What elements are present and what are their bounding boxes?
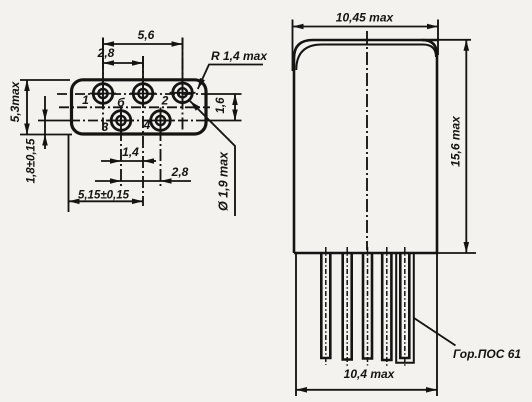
centerline bottom pin row: [70, 120, 207, 122]
lead pin 2 axis: [346, 247, 348, 366]
dimension 5,3 max (left, package height): [8, 80, 72, 135]
column centerline pin 6 (middle): [142, 56, 144, 206]
svg-text:Ø 1,9 max: Ø 1,9 max: [217, 151, 231, 211]
package outline (top view): [72, 80, 207, 134]
svg-text:4: 4: [143, 118, 151, 132]
lead pin 4 (side view): [382, 253, 391, 360]
dimension 2,8 (bottom pins pitch): [95, 165, 191, 184]
radius callout R1,4max: [195, 49, 268, 90]
lead pin 4 axis: [386, 247, 388, 367]
centerline bottom row left extension: [38, 120, 70, 122]
svg-text:10,4 max: 10,4 max: [344, 367, 396, 381]
package horizontal axis: [59, 106, 210, 108]
body outline (side view): [294, 40, 438, 253]
dimension 10,4 max: [296, 253, 437, 396]
svg-text:2: 2: [161, 94, 169, 108]
svg-text:2,8: 2,8: [97, 46, 115, 60]
svg-text:15,6 max: 15,6 max: [449, 115, 463, 167]
body vertical axis: [366, 31, 368, 250]
lead pin 1 axis: [325, 247, 327, 365]
pin 4 (bottom-right): [148, 108, 174, 134]
lead pin 1 (side view): [321, 253, 330, 358]
svg-text:5,6: 5,6: [138, 28, 155, 42]
svg-text:б: б: [117, 96, 125, 110]
dimension 1,4 (bottom offset): [101, 145, 156, 164]
solder note leader (Гор.ПОС 61): [414, 318, 521, 361]
svg-text:3: 3: [102, 120, 109, 134]
pin 3 (bottom-left): [108, 108, 134, 134]
svg-text:10,45 max: 10,45 max: [336, 11, 395, 25]
svg-text:1: 1: [82, 93, 89, 107]
extension line pin2 column above: [182, 38, 184, 81]
dimension 1,6 (row pitch, right): [215, 94, 238, 121]
pin 6 (top-middle): [130, 81, 156, 107]
column centerline pin 3: [120, 109, 122, 186]
svg-text:2,8: 2,8: [171, 165, 189, 179]
svg-text:1,8±0,15: 1,8±0,15: [26, 138, 38, 183]
lead pin 5 axis: [404, 247, 406, 366]
svg-text:5,3max: 5,3max: [8, 80, 22, 122]
column centerline pin 4: [160, 109, 162, 186]
lead pin 3 (side view): [363, 253, 372, 359]
extension line pin1 column above: [102, 38, 104, 81]
pin diameter callout Ø1,9 max: [188, 99, 235, 216]
dimension 5,6: [103, 28, 183, 47]
svg-text:R 1,4 max: R 1,4 max: [211, 49, 268, 63]
svg-text:1,6: 1,6: [215, 97, 227, 114]
body cap inner seam line: [296, 45, 436, 71]
lead pin 6 outline (far row, behind pin 5): [396, 253, 414, 363]
dimension 10,45 max: [293, 11, 439, 72]
column centerline pin 1: [102, 38, 104, 135]
lead pin 3 axis: [367, 247, 369, 366]
lead pin 5 (side view): [400, 253, 409, 358]
lead pin 2 (side view): [343, 253, 352, 360]
centerline top pin row: [57, 93, 207, 95]
dimension 2,8 (top): [97, 46, 143, 66]
extension line pin6 column above: [142, 56, 144, 80]
svg-text:Гор.ПОС 61: Гор.ПОС 61: [453, 347, 521, 361]
centerline top row right extension: [207, 93, 242, 95]
package left edge extension (down): [68, 135, 70, 212]
svg-text:5,15±0,15: 5,15±0,15: [78, 190, 130, 202]
dimension 1,8±0,15 (left, row to bottom): [26, 96, 48, 183]
pin 1 (top-left): [90, 81, 116, 107]
centerline bottom row right extension: [207, 120, 242, 122]
svg-text:1,4: 1,4: [122, 145, 139, 159]
pin 2 (top-right): [170, 80, 196, 106]
dimension 5,15±0,15: [69, 190, 144, 205]
column centerline pin 2: [182, 38, 184, 135]
dimension 15,6 max: [438, 40, 476, 253]
